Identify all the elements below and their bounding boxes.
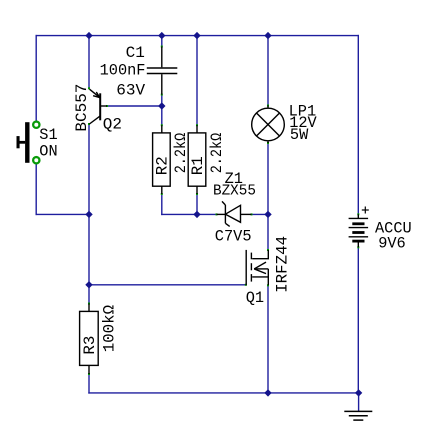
- battery plate long 1: [349, 217, 369, 219]
- svg-text:Q1: Q1: [246, 289, 264, 307]
- body arrow barb up: [254, 262, 266, 269]
- battery ACCU: [349, 207, 369, 248]
- C1 top plate: [147, 67, 178, 69]
- pin endpoint dots (green): [88, 46, 359, 376]
- C1 bottom pin: [161, 74, 163, 94]
- base stub: [100, 105, 107, 107]
- svg-text:C7V5: C7V5: [215, 227, 252, 245]
- wire top rail: [36, 35, 358, 37]
- pin Z1 cathode: [216, 213, 218, 215]
- pin R1 bottom: [196, 193, 198, 195]
- transistor Q2 BC557: [89, 89, 107, 124]
- svg-text:5W: 5W: [290, 126, 309, 144]
- wire switch bottom: [35, 164, 37, 214]
- wire emitter Q2: [88, 36, 90, 89]
- battery plate long 3: [349, 236, 369, 238]
- wire C1 top: [161, 36, 163, 47]
- node zener/lamp line: [264, 211, 271, 218]
- node switch/collector: [85, 211, 92, 218]
- wire node to R2 top: [161, 106, 163, 125]
- ground: [344, 411, 372, 420]
- wire C1 bottom to node: [161, 95, 163, 106]
- channel dash middle: [250, 263, 252, 270]
- base bar: [99, 93, 101, 120]
- node source/bottom rail: [264, 389, 271, 396]
- cathode stub: [217, 213, 226, 215]
- pin R3 top: [88, 303, 90, 305]
- wire bottom rail: [89, 392, 359, 394]
- wire R2 corner to node: [162, 213, 197, 215]
- svg-text:S1: S1: [39, 126, 57, 144]
- pin R2 top: [161, 124, 163, 126]
- svg-text:R2: R2: [154, 156, 172, 175]
- node gate branch: [85, 281, 92, 288]
- C1 bottom plate: [147, 73, 178, 75]
- pin Q1 gate: [245, 284, 247, 286]
- battery plate short 3: [352, 240, 364, 243]
- collector diagonal: [89, 116, 100, 124]
- wire source Q1 to rail: [267, 285, 269, 393]
- capacitor C1: [147, 47, 178, 95]
- cathode hook bottom: [225, 223, 229, 226]
- node lamp/top rail: [264, 32, 271, 39]
- resistor R3: [80, 304, 99, 375]
- svg-text:ON: ON: [39, 142, 57, 160]
- channel dash top: [250, 253, 252, 260]
- svg-text:Q2: Q2: [103, 116, 122, 134]
- body arrow barb down: [254, 269, 266, 274]
- pin LP1 top: [267, 105, 269, 107]
- switch terminal top: [33, 122, 39, 128]
- emitter diagonal: [90, 89, 100, 97]
- anode triangle: [225, 205, 240, 222]
- switch actuator stem: [17, 141, 26, 144]
- svg-text:BC557: BC557: [73, 84, 91, 132]
- wire R1 bottom: [196, 194, 198, 214]
- battery plate short 1: [352, 222, 364, 225]
- svg-text:100nF: 100nF: [100, 61, 146, 79]
- gate bar: [245, 250, 247, 285]
- switch contact plate: [25, 122, 29, 163]
- pin Z1 anode: [251, 213, 253, 215]
- channel dash bottom: [250, 274, 252, 282]
- resistor R1: [188, 125, 206, 194]
- pin Q2 collector: [88, 123, 90, 125]
- drain tap: [252, 250, 268, 259]
- body to source: [267, 269, 269, 277]
- C1 top pin: [161, 47, 163, 68]
- battery bottom stub: [357, 241, 359, 247]
- battery plate long 2: [349, 227, 369, 229]
- wire lamp bottom: [267, 143, 269, 214]
- emitter arrowhead: [93, 96, 100, 98]
- pin Q1 drain: [267, 249, 269, 251]
- battery plate short 2: [352, 231, 364, 234]
- pin Q1 source: [267, 284, 269, 286]
- wire R2 bottom: [161, 194, 163, 214]
- source tap: [252, 277, 268, 285]
- pin R1 top: [196, 124, 198, 126]
- wire horizontal to collector node: [36, 213, 89, 215]
- cathode bar: [224, 205, 226, 223]
- wire base Q2: [107, 105, 162, 107]
- switch terminal bottom: [33, 157, 39, 163]
- svg-text:R1: R1: [189, 156, 207, 175]
- pin battery minus: [357, 246, 359, 248]
- pin battery plus: [357, 213, 359, 215]
- svg-text:IRFZ44: IRFZ44: [273, 236, 291, 293]
- resistor R2: [153, 125, 171, 194]
- pin Q2 emitter: [88, 87, 90, 89]
- plus sign: [364, 207, 366, 214]
- wire zener left: [197, 213, 217, 215]
- MOSFET Q1 IRFZ44: [246, 250, 268, 285]
- svg-text:9V6: 9V6: [378, 234, 406, 252]
- node R1/R2/zener: [193, 211, 200, 218]
- svg-text:C1: C1: [126, 44, 145, 62]
- pin C1 bottom: [161, 94, 163, 96]
- wire lamp top: [267, 36, 269, 106]
- wire battery bottom: [357, 247, 359, 393]
- pin LP1 bottom: [267, 142, 269, 144]
- wire gate Q1: [89, 284, 246, 286]
- anode stub: [241, 213, 252, 215]
- switch S1 pushbutton: [17, 122, 40, 164]
- node C1/top rail: [158, 32, 165, 39]
- pin Q2 base: [106, 105, 108, 107]
- switch actuator cap: [17, 136, 20, 148]
- svg-text:100kΩ: 100kΩ: [101, 304, 119, 352]
- svg-text:2.2kΩ: 2.2kΩ: [208, 132, 226, 173]
- lamp LP1: [252, 106, 285, 144]
- body arrow shaft: [254, 268, 268, 270]
- node R1/top rail: [193, 32, 200, 39]
- wire R3 bottom: [88, 374, 90, 393]
- wire collector Q2 down to R3: [88, 124, 90, 304]
- wire ground stub: [358, 393, 360, 411]
- battery top stub: [357, 214, 359, 218]
- pin R3 bottom: [88, 373, 90, 375]
- wire zener right: [252, 213, 269, 215]
- cathode hook top: [222, 201, 225, 205]
- node base/C1/R2: [158, 102, 165, 109]
- svg-text:BZX55: BZX55: [213, 184, 256, 200]
- node battery/ground: [355, 389, 362, 396]
- svg-text:R3: R3: [81, 336, 99, 355]
- wire left drop to switch: [35, 36, 37, 121]
- svg-text:63V: 63V: [116, 82, 145, 100]
- wire to drain Q1: [267, 214, 269, 250]
- node emitter/top rail: [85, 32, 92, 39]
- pin C1 top: [161, 46, 163, 48]
- pin R2 bottom: [161, 193, 163, 195]
- svg-text:2.2kΩ: 2.2kΩ: [172, 132, 190, 173]
- wire battery top: [357, 36, 359, 215]
- zener diode Z1: [217, 201, 252, 226]
- wire R1 top: [196, 36, 198, 126]
